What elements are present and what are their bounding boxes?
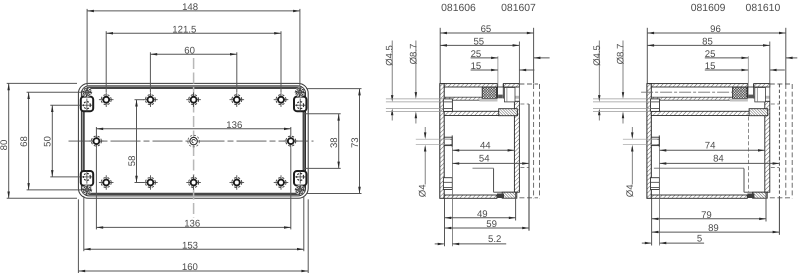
dimension O4.5: [391, 41, 393, 100]
section: side standoff boss (O4): [444, 135, 452, 147]
dimension 5.2 (lip thickness): [435, 243, 444, 245]
dimension 15: [471, 69, 498, 71]
section: lid inner lip: [651, 97, 732, 100]
standoff hole bottom row 5: [274, 175, 289, 190]
section: lid plate: [440, 84, 444, 199]
section: body bottom wall: [765, 101, 770, 192]
extension lines for bottom 136: [95, 148, 97, 229]
svg-text:79: 79: [701, 210, 712, 221]
dimension 148: [87, 2, 300, 13]
svg-text:73: 73: [350, 137, 361, 148]
svg-text:121.5: 121.5: [172, 24, 196, 35]
section: screw centerlines: [641, 91, 733, 93]
section: counterbore boss lower: [651, 178, 660, 190]
standoff hole top row 2: [143, 92, 158, 107]
standoff hole bottom row 1: [99, 175, 114, 190]
corner boss top-right: [294, 97, 307, 112]
dimension 84: [660, 162, 780, 164]
svg-text:15: 15: [705, 61, 716, 72]
dimension 44: [452, 149, 514, 151]
svg-text:55: 55: [473, 36, 484, 47]
dimension 80: [0, 83, 10, 198]
svg-text:136: 136: [184, 219, 200, 230]
callout extension lines: [386, 98, 444, 100]
svg-text:25: 25: [705, 49, 716, 60]
section: hidden pocket edge line: [654, 167, 744, 169]
dimension O4: [631, 127, 633, 137]
section: rim screw boss: [499, 109, 518, 116]
top view: outer body outline: [78, 83, 308, 198]
extension lines for 38: [303, 113, 341, 115]
dimension 136 inner: [96, 120, 290, 131]
dimension 5 (lip thickness): [642, 242, 651, 244]
dimension 15: [705, 69, 749, 71]
section extension lines: [439, 28, 441, 83]
svg-text:Ø4.5: Ø4.5: [385, 45, 396, 66]
svg-text:68: 68: [19, 136, 30, 147]
vertical centerline: [193, 58, 195, 218]
dimension 65: [440, 32, 533, 34]
extension lines for 153: [83, 196, 85, 251]
extension lines for 50: [50, 104, 80, 106]
lid screw top-right: [295, 87, 305, 97]
svg-text:5: 5: [697, 233, 702, 244]
corner boss bottom-right: [294, 170, 307, 185]
dimension O8.7: [622, 41, 624, 97]
svg-text:59: 59: [486, 219, 497, 230]
section: counterbore boss upper (4.5/8.7 holes): [443, 99, 452, 112]
lid screw bottom-left: [82, 185, 92, 195]
standoff hole bottom row 4: [230, 175, 245, 190]
svg-text:Ø8.7: Ø8.7: [408, 44, 419, 65]
dimension 49: [445, 217, 516, 219]
dimension 89: [652, 231, 780, 233]
section: corner post pocket: [504, 88, 515, 102]
section: rim screw boss: [749, 109, 768, 116]
svg-text:5.2: 5.2: [488, 234, 501, 245]
dimension 153: [84, 240, 304, 251]
top view: lid step edge (153 x 73): [84, 88, 304, 194]
svg-text:25: 25: [471, 49, 482, 60]
svg-text:60: 60: [184, 46, 195, 57]
section: lid screw: [748, 84, 754, 99]
dimension 55: [440, 44, 519, 46]
extension lines for 148: [86, 9, 88, 86]
standoff hole top row 3: [186, 92, 201, 107]
section: side standoff boss (O4): [651, 135, 659, 147]
dimension 160: [78, 262, 308, 273]
svg-text:50: 50: [43, 136, 54, 147]
dimension 121.5: [106, 24, 281, 35]
section: taller-variant hidden profile: [785, 84, 787, 198]
dimension 68: [19, 92, 30, 190]
section: body bottom wall: [514, 101, 519, 192]
dimension 136 bottom: [96, 219, 290, 230]
dimension 85: [647, 44, 770, 46]
extension lines for 60: [149, 52, 151, 92]
section: taller-variant hidden profile: [533, 84, 535, 198]
section: lid screw: [498, 84, 504, 99]
extension lines for 121.5: [105, 31, 107, 92]
center hole: [188, 135, 200, 147]
dimension 59: [445, 227, 530, 229]
section: upper side wall: [444, 84, 497, 87]
section extension lines: [646, 28, 648, 83]
svg-text:89: 89: [708, 223, 719, 234]
dimension 25: [471, 57, 498, 59]
lid screw top-left: [82, 87, 92, 97]
svg-text:081610: 081610: [746, 3, 781, 14]
standoff hole top row 5: [274, 92, 289, 107]
corner boss bottom-left: [81, 170, 94, 185]
svg-text:38: 38: [329, 137, 340, 148]
section: lid screw pillar (hatched): [482, 87, 496, 99]
dimension 74: [660, 149, 765, 151]
svg-text:Ø4: Ø4: [418, 184, 429, 197]
svg-text:081606: 081606: [441, 3, 476, 14]
top view: lid outline: [81, 86, 305, 196]
extension lines for 58: [135, 99, 145, 101]
extension lines for 160: [77, 199, 79, 273]
dimension 79: [652, 218, 766, 220]
dimension O4: [424, 127, 426, 137]
dimension 58: [127, 100, 138, 183]
standoff hole bottom row 3: [186, 175, 201, 190]
extension lines for 68: [27, 91, 82, 93]
dimension 73: [350, 89, 361, 194]
svg-text:96: 96: [710, 24, 721, 35]
dimension 54: [452, 162, 529, 164]
standoff hole bottom row 2: [143, 175, 158, 190]
svg-text:58: 58: [127, 156, 138, 167]
standoff hole top row 4: [230, 92, 245, 107]
section: lid plate: [647, 84, 651, 199]
svg-text:081609: 081609: [691, 3, 726, 14]
section: corner post pocket: [755, 88, 766, 102]
svg-text:160: 160: [182, 262, 198, 273]
dimension 50: [43, 105, 54, 177]
lid screw bottom-right: [295, 185, 305, 195]
dimension 38: [329, 114, 340, 169]
svg-text:15: 15: [471, 61, 482, 72]
section: counterbore boss lower: [443, 178, 452, 190]
callout extension lines: [593, 98, 651, 100]
standoff hole middle left: [89, 134, 104, 149]
svg-text:148: 148: [182, 2, 198, 13]
svg-text:136: 136: [226, 120, 242, 131]
dimension 96: [647, 32, 786, 34]
corner boss top-left: [81, 97, 94, 112]
svg-text:85: 85: [702, 36, 713, 47]
dimension 60: [150, 46, 236, 57]
svg-text:74: 74: [705, 140, 716, 151]
svg-text:65: 65: [481, 24, 492, 35]
extension lines for inner 136: [95, 127, 97, 134]
section: upper side wall: [651, 84, 748, 87]
section: body rim ledge: [444, 111, 517, 115]
svg-text:Ø4: Ø4: [625, 184, 636, 197]
svg-text:84: 84: [713, 153, 724, 164]
section: lid inner lip: [444, 97, 482, 100]
dimension O8.7: [415, 41, 417, 97]
section: bottom screw boss: [753, 192, 768, 198]
svg-text:081607: 081607: [501, 3, 536, 14]
section: lower side wall: [444, 195, 497, 198]
standoff hole top row 1: [99, 92, 114, 107]
section: pocket shelf shading: [504, 96, 520, 99]
section: lower side wall: [651, 195, 747, 198]
dimension O4.5: [598, 41, 600, 100]
section: lid screw pillar (hatched): [733, 87, 747, 99]
svg-text:44: 44: [480, 140, 491, 151]
section: body rim ledge: [651, 111, 767, 115]
svg-text:Ø8.7: Ø8.7: [616, 44, 627, 65]
extension lines for 80: [7, 82, 77, 84]
svg-text:Ø4.5: Ø4.5: [592, 45, 603, 66]
svg-text:80: 80: [0, 140, 10, 151]
section: hidden pocket edge line: [473, 167, 494, 169]
section: bottom screw boss: [502, 192, 517, 198]
standoff hole middle right: [284, 134, 299, 149]
svg-text:153: 153: [182, 240, 198, 251]
extension lines for 73: [306, 88, 362, 90]
section: counterbore boss upper (4.5/8.7 holes): [651, 99, 660, 112]
section: pocket shelf shading: [754, 96, 770, 99]
dimension 25: [705, 57, 749, 59]
svg-text:54: 54: [479, 153, 490, 164]
horizontal centerline: [69, 140, 314, 142]
